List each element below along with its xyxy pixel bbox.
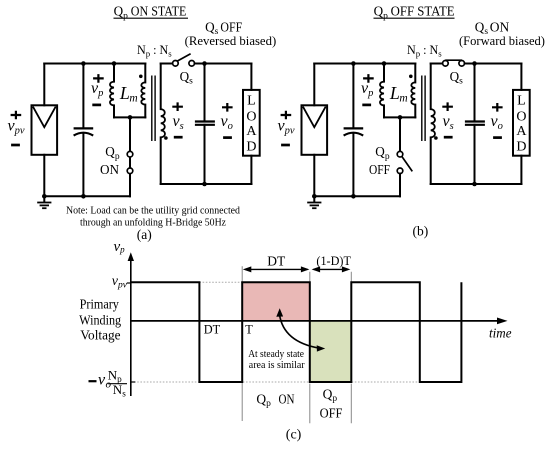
tick and label vpv <box>112 274 131 291</box>
label + vo - (b) <box>491 103 503 138</box>
node: top rail input cap junction (b) <box>351 61 356 66</box>
ground symbol (a) <box>37 196 51 208</box>
node: Lm bottom Qp branch junction (a) <box>128 115 133 120</box>
node: bottom rail ground junction (b) <box>312 194 317 199</box>
svg-text:DT: DT <box>204 322 221 336</box>
svg-text:D: D <box>516 139 526 154</box>
wire: bottom rail secondary side (a) <box>161 183 252 185</box>
label Primary Winding Voltage <box>79 298 121 344</box>
transformer primary winding Np (a) <box>141 64 145 118</box>
label + vpv - (b) <box>278 111 295 145</box>
node: top rail input cap junction (a) <box>81 61 86 66</box>
load box (a) <box>243 64 260 185</box>
svg-text:OFF: OFF <box>369 162 390 177</box>
node: top rail Lm branch junction (b) <box>382 61 387 66</box>
label + vp - (b) <box>361 74 374 105</box>
wire: top rail primary side (a) <box>44 63 145 65</box>
svg-text:OFF: OFF <box>220 19 242 34</box>
svg-text:(a): (a) <box>137 227 152 242</box>
wire: PV bottom to ground rail (b) <box>313 155 315 197</box>
svg-text:Winding: Winding <box>79 313 121 328</box>
svg-text:Np : Ns: Np : Ns <box>407 43 442 59</box>
waveform vp square wave <box>131 282 462 382</box>
polarity dot primary (a) <box>139 75 143 79</box>
svg-text:(Forward biased): (Forward biased) <box>459 34 545 48</box>
wire: PV bottom to ground rail (a) <box>43 155 45 197</box>
label Qs OFF (Reversed biased) <box>185 19 277 48</box>
svg-text:T: T <box>245 322 253 336</box>
marker line at 2T <box>350 272 352 424</box>
node: secondary bottom rail output cap (b) <box>472 182 477 187</box>
dotted negative level line <box>131 381 462 383</box>
svg-text:ON: ON <box>279 391 295 406</box>
load box (b) <box>513 64 530 185</box>
svg-text:(c): (c) <box>286 427 302 442</box>
transformer primary winding Np (b) <box>411 64 415 118</box>
magnetizing inductor Lm (b) <box>380 64 384 118</box>
marker line at T plus DT <box>309 272 311 424</box>
svg-text:DT: DT <box>267 253 286 268</box>
solar panel PV source (a) <box>32 105 58 155</box>
wire: left branch from top rail to PV panel (a) <box>43 64 45 106</box>
node: Lm bottom Qp branch junction (b) <box>398 115 403 120</box>
switch Qp closed ON (a) <box>127 117 133 196</box>
switch Qp open OFF (b) <box>397 117 412 196</box>
wire: bottom rail secondary side (b) <box>431 183 522 185</box>
label At steady state area is similar <box>248 348 305 371</box>
curved double arrow equal areas <box>276 308 325 351</box>
ground symbol (b) <box>307 196 321 208</box>
label + vs - (a) <box>172 102 183 137</box>
shaded area 1-D T green <box>310 321 352 382</box>
transformer core (b) <box>422 76 425 142</box>
switch Qs open OFF (a) <box>161 54 252 66</box>
title Qp ON STATE <box>114 4 189 22</box>
switch Qs closed ON (b) <box>431 60 522 66</box>
wire: Lm loop bottom (b) <box>384 116 415 118</box>
node: secondary bottom rail output cap (a) <box>202 182 207 187</box>
svg-text:(1-D)T: (1-D)T <box>316 254 351 268</box>
title Qp OFF STATE <box>374 4 455 22</box>
label + vp - (a) <box>91 74 104 105</box>
node: secondary top rail output cap (a) <box>202 61 207 66</box>
svg-text:ON: ON <box>490 19 510 34</box>
wire: bottom rail primary side (b) <box>314 195 400 197</box>
note text under circuit a <box>66 205 240 229</box>
node: bottom rail input cap junction (a) <box>81 194 86 199</box>
svg-text:O: O <box>516 110 526 125</box>
polarity dot secondary (b) <box>434 136 438 140</box>
svg-text:O: O <box>246 110 256 125</box>
label + vpv - (a) <box>8 111 25 145</box>
svg-text:OFF STATE: OFF STATE <box>391 4 455 19</box>
svg-text:Np : Ns: Np : Ns <box>137 43 172 59</box>
input capacitor (a) <box>74 64 94 197</box>
svg-text:ON: ON <box>100 162 120 177</box>
vertical axis vp <box>128 252 134 396</box>
svg-text:through an unfolding H-Bridge: through an unfolding H-Bridge 50Hz <box>80 217 226 229</box>
dotted vpv level line <box>199 281 242 283</box>
wire: Lm loop bottom (a) <box>114 116 145 118</box>
tick and label -vo Np over Ns <box>89 368 136 399</box>
marker line at T <box>241 266 243 421</box>
wire: top rail primary side (b) <box>314 63 415 65</box>
output capacitor (a) <box>195 64 215 185</box>
shaded area DT red <box>242 282 310 321</box>
svg-text:Note: Load can be the utility: Note: Load can be the utility grid conne… <box>66 205 240 217</box>
svg-text:A: A <box>516 124 527 139</box>
solar panel PV source (b) <box>302 105 328 155</box>
svg-text:Primary: Primary <box>80 298 119 313</box>
svg-text:(Reversed biased): (Reversed biased) <box>185 34 277 48</box>
svg-text:L: L <box>517 94 526 109</box>
magnetizing inductor Lm (a) <box>110 64 114 118</box>
transformer core (a) <box>152 76 155 142</box>
label Qs ON (Forward biased) <box>459 19 545 48</box>
polarity dot primary (b) <box>409 75 413 79</box>
svg-text:Voltage: Voltage <box>80 328 120 343</box>
DT span arrow <box>243 266 310 272</box>
label + vo - (a) <box>221 103 233 138</box>
node: bottom rail input cap junction (b) <box>351 194 356 199</box>
transformer secondary winding Ns (b) <box>431 64 435 185</box>
transformer secondary winding Ns (a) <box>161 64 165 185</box>
svg-text:area is similar: area is similar <box>249 359 305 371</box>
svg-text:A: A <box>246 124 257 139</box>
svg-text:time: time <box>489 327 512 342</box>
label Qp OFF under green <box>320 386 343 420</box>
wire: left branch from top rail to PV panel (b) <box>313 64 315 106</box>
node: bottom rail ground junction (a) <box>42 194 47 199</box>
node: secondary top rail output cap (b) <box>472 61 477 66</box>
polarity dot secondary (a) <box>164 136 168 140</box>
svg-text:OFF: OFF <box>320 406 343 421</box>
label Qp ON under red <box>256 391 294 409</box>
output capacitor (b) <box>465 64 485 185</box>
svg-text:D: D <box>246 139 256 154</box>
input capacitor (b) <box>344 64 364 197</box>
svg-text:L: L <box>247 94 256 109</box>
label + vs - (b) <box>442 102 453 137</box>
svg-text:ON STATE: ON STATE <box>131 4 187 19</box>
svg-text:(b): (b) <box>413 223 429 238</box>
wire: bottom rail primary side (a) <box>44 195 130 197</box>
node: top rail Lm branch junction (a) <box>112 61 117 66</box>
time axis <box>131 318 508 325</box>
1-D T span arrow <box>312 266 351 272</box>
